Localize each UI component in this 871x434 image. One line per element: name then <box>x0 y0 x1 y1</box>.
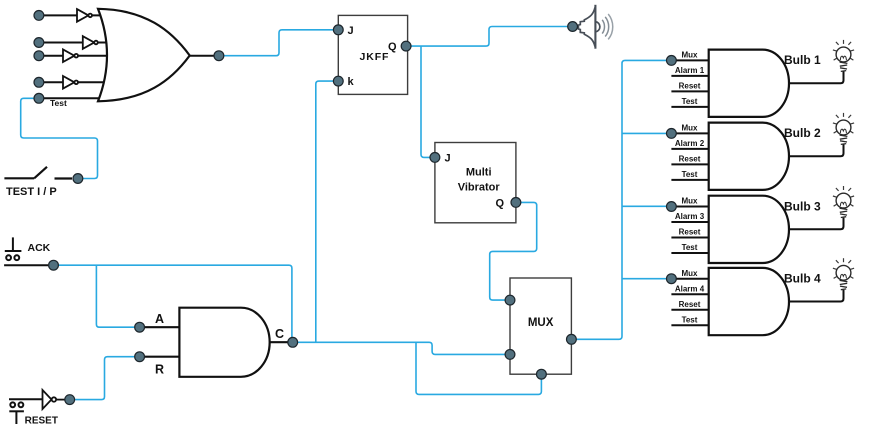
and-gate U5 input line R <box>140 356 180 358</box>
label Bulb 3 <box>784 199 821 213</box>
svg-text:Multi: Multi <box>466 167 492 179</box>
label MUX <box>528 317 554 329</box>
and-gate U9 input stubs <box>671 279 708 326</box>
node input 4 <box>34 77 44 87</box>
node Mux input gate3 <box>667 202 677 212</box>
node JKFF Q <box>401 41 411 51</box>
label Test <box>50 98 67 108</box>
wire ACK branch to A input <box>96 265 139 327</box>
svg-text:R: R <box>155 362 164 376</box>
node MUX in bottom <box>537 369 547 379</box>
and-gate U7 <box>709 123 789 190</box>
inverter G5 <box>43 390 66 409</box>
node RESET output <box>65 395 75 405</box>
node MV Q <box>511 198 521 208</box>
svg-text:Test: Test <box>682 315 698 324</box>
speaker LS1 <box>578 5 599 49</box>
svg-text:A: A <box>155 312 164 326</box>
input line 5 Test <box>39 97 110 99</box>
svg-text:Mux: Mux <box>682 197 699 206</box>
node Mux input gate1 <box>667 56 677 66</box>
wire ACK to node C <box>54 265 292 342</box>
and-gate U8 input stubs <box>671 207 708 254</box>
speaker sound waves <box>602 14 613 39</box>
inverter G2 <box>83 36 98 49</box>
switch TEST I/P <box>4 167 72 179</box>
wire test-input to switch <box>21 98 98 178</box>
svg-text:Test: Test <box>50 98 67 108</box>
svg-text:JKFF: JKFF <box>360 51 390 63</box>
inverter G3 <box>63 49 78 62</box>
label RESET <box>25 416 58 427</box>
inverter G1 <box>77 9 92 22</box>
label Q pin MV <box>496 198 505 210</box>
node MUX in left <box>505 350 515 360</box>
svg-text:MUX: MUX <box>528 317 554 329</box>
svg-text:Alarm 1: Alarm 1 <box>675 66 705 75</box>
label J pin <box>348 25 354 37</box>
or-gate output line <box>190 55 215 57</box>
label R <box>155 362 164 376</box>
label Reset gate1 <box>679 82 701 91</box>
node Mux input gate4 <box>667 274 677 284</box>
node input Test <box>34 93 44 103</box>
svg-text:ACK: ACK <box>28 242 51 254</box>
label ACK <box>28 242 51 254</box>
label Mux gate4 <box>682 269 699 278</box>
svg-text:Q: Q <box>496 198 505 210</box>
label C <box>275 327 284 341</box>
and-gate U7 input stubs <box>671 133 708 180</box>
label TEST I / P <box>6 186 57 198</box>
node input 1 <box>34 11 44 21</box>
or-gate U1 <box>98 9 190 102</box>
push-button RESET <box>9 399 43 424</box>
node MUX output <box>567 334 577 344</box>
svg-text:Alarm 2: Alarm 2 <box>675 139 705 148</box>
input line 3 <box>39 55 118 57</box>
svg-text:Alarm 4: Alarm 4 <box>675 284 705 293</box>
node input 2 <box>34 38 44 48</box>
and-gate U9 output wire <box>789 290 844 302</box>
node R <box>135 352 145 362</box>
label Mux gate3 <box>682 197 699 206</box>
svg-text:Bulb 3: Bulb 3 <box>784 199 821 213</box>
label Test gate2 <box>682 170 698 179</box>
svg-text:Reset: Reset <box>679 300 701 309</box>
wire OR output to JKFF J <box>219 30 338 56</box>
svg-text:Vibrator: Vibrator <box>458 182 501 194</box>
label A <box>155 312 164 326</box>
wire node C to MUX left input <box>293 342 510 354</box>
wire bus branch to Mux input gate 4 <box>622 278 671 280</box>
wire JKFF Q to speaker <box>406 27 572 47</box>
svg-text:C: C <box>275 327 284 341</box>
and-gate U7 output wire <box>789 145 844 157</box>
wire node C branch to MUX bottom input <box>416 342 541 394</box>
svg-text:Reset: Reset <box>679 82 701 91</box>
svg-text:Test: Test <box>682 170 698 179</box>
and-gate U8 <box>709 196 789 263</box>
wire RESET to R input <box>70 357 140 400</box>
label Reset gate2 <box>679 155 701 164</box>
node switch output <box>73 174 83 184</box>
label Alarm 2 gate2 <box>675 139 705 148</box>
node Mux input gate2 <box>667 129 677 139</box>
svg-text:Bulb 4: Bulb 4 <box>784 272 821 286</box>
label Mux gate1 <box>682 51 699 60</box>
and-gate U5 output line <box>270 341 288 343</box>
inverter G4 <box>63 76 78 89</box>
label Test gate4 <box>682 315 698 324</box>
wire bus branch to Mux input gate 3 <box>622 205 671 207</box>
svg-text:Mux: Mux <box>682 51 699 60</box>
and-gate U6 <box>709 50 789 117</box>
label Alarm 4 gate4 <box>675 284 705 293</box>
and-gate U5 <box>179 308 269 377</box>
label Mux gate2 <box>682 124 699 133</box>
label Test gate1 <box>682 97 698 106</box>
svg-text:Bulb 1: Bulb 1 <box>784 53 821 67</box>
bulb B4 <box>833 258 854 290</box>
multivibrator U3 <box>435 143 516 223</box>
svg-text:Alarm 3: Alarm 3 <box>675 212 705 221</box>
label Bulb 2 <box>784 126 821 140</box>
svg-text:Mux: Mux <box>682 269 699 278</box>
input line 4 <box>39 81 116 83</box>
svg-text:J: J <box>445 152 451 164</box>
label JKFF <box>360 51 390 63</box>
wire multivibrator Q to MUX top input <box>490 202 537 300</box>
label Reset gate3 <box>679 228 701 237</box>
svg-text:Test: Test <box>682 243 698 252</box>
node OR output <box>214 51 224 61</box>
label k pin <box>348 76 355 88</box>
svg-text:RESET: RESET <box>25 416 58 427</box>
and-gate U6 input stubs <box>671 60 708 107</box>
bulb B3 <box>833 186 854 218</box>
wire MUX output bus riser <box>571 60 671 339</box>
node MUX in top <box>505 295 515 305</box>
svg-text:J: J <box>348 25 354 37</box>
push-button ACK <box>4 237 48 265</box>
svg-text:Mux: Mux <box>682 124 699 133</box>
node JKFF k <box>333 76 343 86</box>
label Test gate3 <box>682 243 698 252</box>
wire bus branch to Mux input gate 2 <box>622 132 671 134</box>
wire JKFF k to node C <box>316 81 339 342</box>
node ACK output <box>49 260 59 270</box>
label Multi Vibrator <box>458 167 501 194</box>
label Q pin <box>388 41 397 53</box>
wire JKFF Q branch to multivibrator J <box>421 46 435 157</box>
input line 2 <box>39 42 116 44</box>
svg-text:Test: Test <box>682 97 698 106</box>
and-gate U5 input line A <box>140 326 180 328</box>
svg-text:Reset: Reset <box>679 155 701 164</box>
and-gate U8 output wire <box>789 218 844 230</box>
node A <box>135 322 145 332</box>
node input 3 <box>34 51 44 61</box>
node JKFF J <box>333 25 343 35</box>
and-gate U9 <box>709 268 789 335</box>
and-gate U6 output wire <box>789 72 844 84</box>
label Bulb 4 <box>784 272 821 286</box>
node MV J <box>430 153 440 163</box>
mux U4 <box>510 278 571 374</box>
flip-flop U2 JKFF <box>338 15 407 94</box>
label Alarm 1 gate1 <box>675 66 705 75</box>
node speaker input <box>568 22 578 32</box>
input line 1 <box>39 14 112 16</box>
label Bulb 1 <box>784 53 821 67</box>
label Reset gate4 <box>679 300 701 309</box>
bulb B2 <box>833 113 854 144</box>
svg-text:TEST I / P: TEST I / P <box>6 186 57 198</box>
label J pin MV <box>445 152 451 164</box>
svg-text:k: k <box>348 76 355 88</box>
svg-text:Reset: Reset <box>679 228 701 237</box>
node C <box>288 337 298 347</box>
svg-text:Bulb 2: Bulb 2 <box>784 126 821 140</box>
bulb B1 <box>833 40 854 72</box>
label Alarm 3 gate3 <box>675 212 705 221</box>
